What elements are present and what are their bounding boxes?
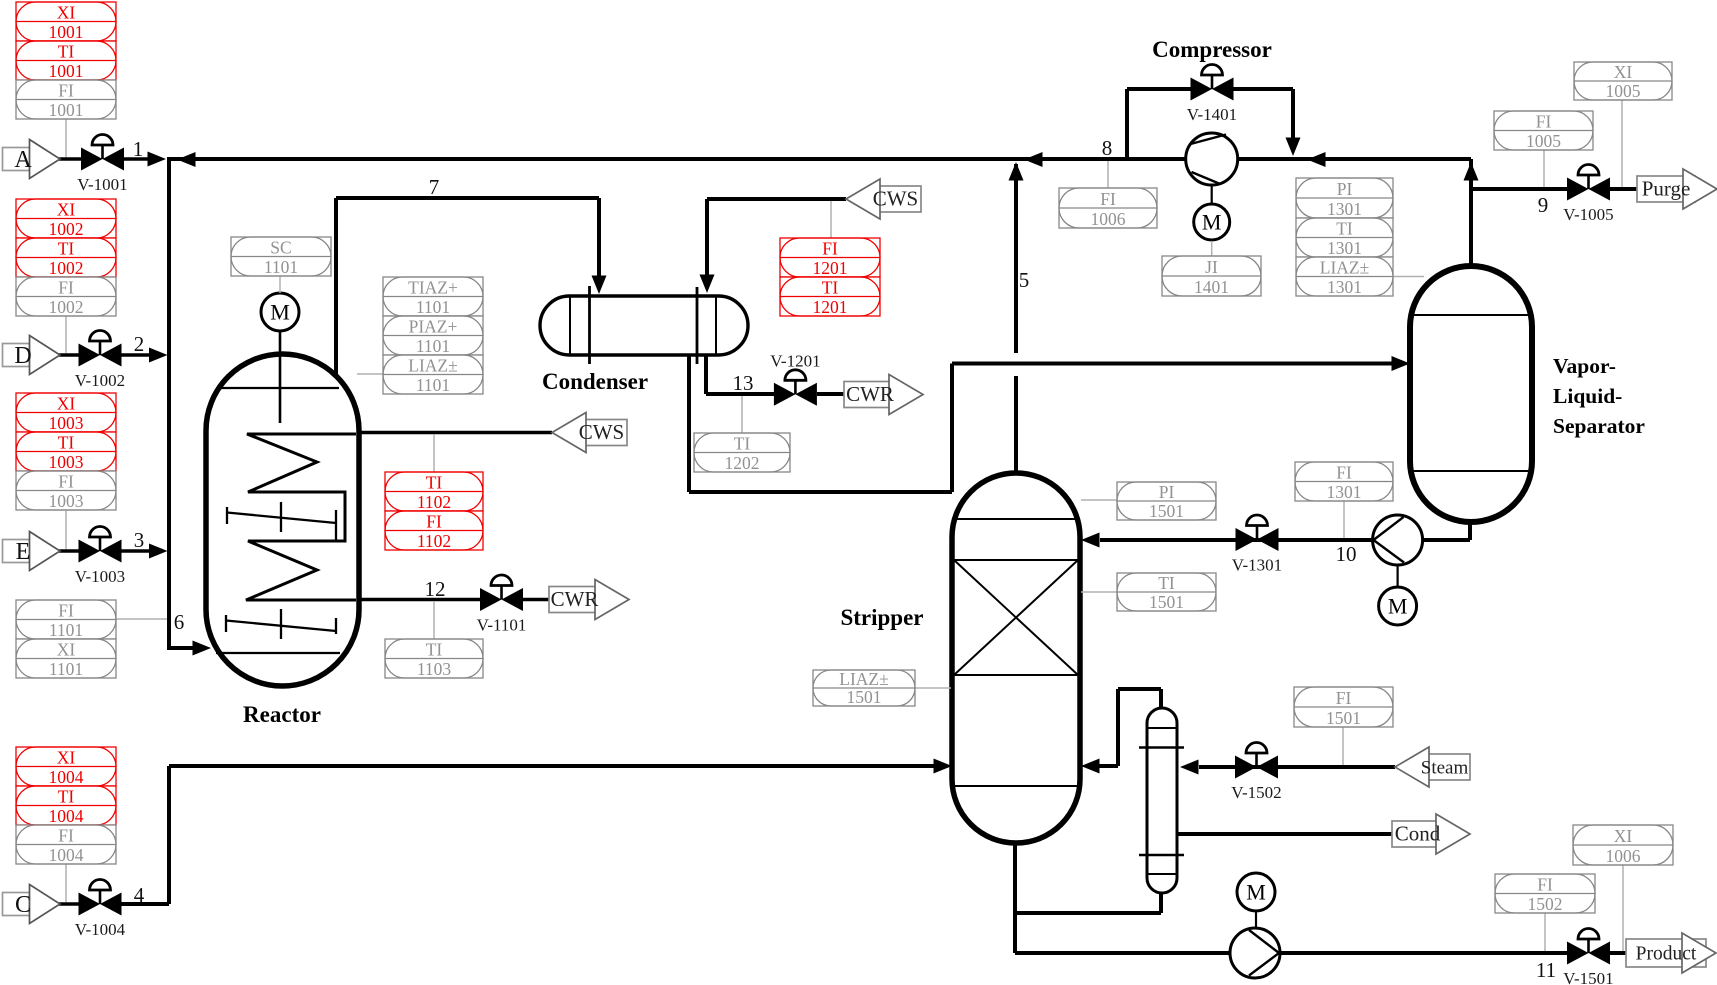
svg-text:1006: 1006 (1606, 846, 1641, 866)
svg-text:TI: TI (426, 473, 443, 493)
condenser tube sheets (590, 286, 698, 364)
svg-text:PI: PI (1159, 482, 1175, 502)
svg-text:1101: 1101 (264, 257, 298, 277)
arrowhead stream 10 into stripper (1081, 533, 1100, 548)
valve V-1005 (1563, 165, 1613, 225)
svg-text:C: C (15, 892, 31, 918)
svg-text:Product: Product (1636, 944, 1697, 965)
wire stream 7 reactor to condenser (336, 198, 599, 376)
svg-text:FI: FI (58, 826, 74, 846)
svg-text:1006: 1006 (1091, 209, 1126, 229)
svg-text:LIAZ±: LIAZ± (408, 356, 457, 376)
svg-text:1002: 1002 (49, 297, 84, 317)
svg-text:CWR: CWR (551, 587, 599, 611)
svg-text:PIAZ+: PIAZ+ (409, 317, 458, 337)
instrument FI 1004 (16, 825, 116, 865)
svg-text:FI: FI (58, 278, 74, 298)
svg-text:TI: TI (822, 278, 839, 298)
reactor agitator paddle 1 (227, 502, 336, 541)
svg-text:1301: 1301 (1327, 277, 1362, 297)
svg-text:TI: TI (58, 433, 75, 453)
arrowhead stream 3 (149, 544, 168, 559)
svg-text:TI: TI (426, 640, 443, 660)
svg-text:V-1502: V-1502 (1231, 783, 1281, 802)
svg-text:TI: TI (58, 42, 75, 62)
reboiler vessel (1147, 708, 1177, 893)
reactor cooling coil (246, 434, 356, 600)
svg-text:1501: 1501 (1149, 501, 1184, 521)
svg-text:CWR: CWR (846, 382, 894, 406)
valve V-1004 (75, 880, 126, 939)
svg-text:M: M (270, 300, 290, 325)
svg-text:Steam: Steam (1421, 758, 1469, 779)
instrument FI 1501 (1294, 687, 1393, 728)
svg-text:Reactor: Reactor (243, 702, 321, 727)
svg-text:Compressor: Compressor (1152, 37, 1272, 62)
valve V-1002 (75, 331, 125, 390)
wire feed E stubs (59, 549, 152, 552)
wire reactor CWR stream 12 (356, 598, 552, 601)
svg-text:FI: FI (1100, 189, 1116, 209)
svg-text:V-1501: V-1501 (1563, 969, 1613, 985)
svg-text:TI: TI (734, 434, 751, 454)
svg-text:XI: XI (1614, 62, 1633, 82)
svg-text:1001: 1001 (49, 61, 84, 81)
svg-text:CWS: CWS (873, 187, 919, 211)
svg-text:9: 9 (1538, 193, 1549, 217)
utility arrow Product (1626, 933, 1716, 973)
utility arrow Steam (1395, 747, 1470, 787)
instrument FI 1102 (385, 511, 483, 551)
svg-text:XI: XI (57, 200, 76, 220)
svg-text:1501: 1501 (1149, 592, 1184, 612)
svg-text:1301: 1301 (1327, 482, 1362, 502)
svg-text:1501: 1501 (1326, 708, 1361, 728)
svg-text:1003: 1003 (49, 491, 84, 511)
valve V-1101 (477, 575, 527, 635)
instrument FI 1006 (1059, 188, 1157, 229)
arrowhead stream 7 into condenser (592, 276, 607, 295)
svg-text:V-1301: V-1301 (1232, 556, 1282, 575)
instrument TI 1102 (385, 472, 483, 512)
svg-text:Condenser: Condenser (542, 369, 648, 394)
svg-text:1101: 1101 (416, 336, 450, 356)
svg-text:V-1002: V-1002 (75, 371, 125, 390)
arrowhead CWS into condenser (700, 275, 715, 294)
svg-text:LIAZ±: LIAZ± (839, 669, 888, 689)
arrowhead riser up (1464, 162, 1479, 181)
svg-text:1102: 1102 (417, 492, 451, 512)
svg-text:FI: FI (1336, 688, 1352, 708)
arrowhead recycle mid (1024, 152, 1043, 167)
instrument XI 1004 (16, 747, 116, 787)
wire condenser outlet to separator (689, 353, 1392, 492)
svg-text:V-1005: V-1005 (1563, 205, 1613, 224)
wire compressor to motor (1211, 185, 1213, 203)
svg-text:V-1003: V-1003 (75, 567, 125, 586)
instrument XI 1101 (16, 639, 116, 679)
utility arrow Cond (1392, 814, 1470, 854)
instrument XI 1005 (1574, 62, 1672, 101)
svg-text:XI: XI (57, 748, 76, 768)
svg-text:PI: PI (1337, 179, 1353, 199)
instrument LIAZ 1501 (813, 669, 915, 707)
svg-text:M: M (1246, 880, 1266, 905)
stripper vessel (952, 473, 1080, 843)
svg-text:1301: 1301 (1327, 238, 1362, 258)
svg-text:8: 8 (1102, 136, 1113, 160)
wire separator overhead riser (1469, 159, 1473, 268)
svg-text:1004: 1004 (49, 767, 84, 787)
valve V-1003 (75, 527, 125, 587)
svg-text:1101: 1101 (416, 375, 450, 395)
svg-text:1004: 1004 (49, 845, 84, 865)
instrument FI 1201 (780, 238, 880, 278)
instrument TI 1001 (16, 41, 116, 81)
reactor internals: tangent line (221, 387, 339, 389)
feed stream E block arrow (3, 532, 61, 571)
svg-text:1502: 1502 (1528, 894, 1563, 914)
arrowhead stream 2 (149, 348, 168, 363)
svg-text:M: M (1202, 210, 1222, 235)
arrowhead bypass down (1286, 138, 1301, 157)
svg-text:1101: 1101 (416, 297, 450, 317)
instrument TI 1301 (1296, 218, 1393, 258)
wire stripper bottoms stream 11 product (1015, 843, 1640, 953)
wire reactor inlet stub stream 6 (169, 646, 198, 650)
utility arrow Purge (1637, 169, 1717, 209)
svg-text:TIAZ+: TIAZ+ (408, 278, 458, 298)
svg-text:TI: TI (1336, 219, 1353, 239)
svg-text:1004: 1004 (49, 806, 84, 826)
svg-text:1501: 1501 (847, 687, 882, 707)
arrowhead recycle right (1307, 152, 1326, 167)
utility arrow CWR (844, 375, 923, 415)
svg-text:E: E (16, 539, 31, 565)
utility arrow CWR (549, 580, 629, 620)
svg-text:FI: FI (58, 601, 74, 621)
wire steam line (1199, 765, 1395, 769)
svg-text:1401: 1401 (1194, 277, 1229, 297)
arrowhead stream 4 into stripper (934, 759, 953, 774)
instrument XI 1002 (16, 199, 116, 239)
svg-text:V-1001: V-1001 (77, 175, 127, 194)
svg-text:XI: XI (57, 3, 76, 23)
svg-text:13: 13 (733, 371, 754, 395)
svg-text:1002: 1002 (49, 219, 84, 239)
feed stream A block arrow (3, 140, 61, 179)
svg-text:V-1004: V-1004 (75, 920, 126, 939)
instrument FI 1301 (1295, 462, 1393, 502)
svg-text:1001: 1001 (49, 22, 84, 42)
arrowhead stream 1 into header (148, 152, 167, 167)
feed stream C block arrow (3, 885, 61, 924)
svg-text:FI: FI (822, 239, 838, 259)
instrument TI 1201 (780, 277, 880, 317)
reactor agitator shaft (279, 331, 282, 423)
svg-text:XI: XI (1614, 826, 1633, 846)
instrument FI 1001 (16, 80, 116, 120)
wire main recycle line stream 8 (169, 157, 1471, 161)
instrument TI 1004 (16, 786, 116, 826)
instrument LIAZ 1301 (1296, 257, 1393, 297)
valve V-1401 (1187, 65, 1237, 125)
valve V-1502 (1231, 743, 1281, 803)
svg-text:1103: 1103 (417, 659, 452, 679)
svg-text:1003: 1003 (49, 413, 84, 433)
svg-text:1102: 1102 (417, 531, 451, 551)
arrowhead recycle into junction (177, 152, 196, 167)
instrument FI 1005 (1494, 111, 1593, 151)
separator pump (1373, 515, 1423, 565)
instrument FI 1502 (1495, 874, 1595, 914)
instrument XI 1003 (16, 393, 116, 433)
stripper pump motor M (1237, 873, 1275, 911)
condenser head tangents (570, 297, 716, 354)
instrument TIAZ+ 1101 (383, 277, 483, 317)
svg-text:1002: 1002 (49, 258, 84, 278)
svg-text:A: A (14, 147, 32, 173)
wire feed D stubs (59, 353, 152, 356)
instrument FI 1002 (16, 277, 116, 317)
instrument PI 1301 (1296, 178, 1393, 219)
instrument FI 1101 (16, 600, 116, 640)
compressor (1186, 133, 1238, 185)
svg-text:1005: 1005 (1606, 81, 1641, 101)
svg-text:4: 4 (134, 883, 145, 907)
stripper tangent lines (955, 519, 1077, 786)
svg-text:LIAZ±: LIAZ± (1320, 258, 1369, 278)
instrument JI 1401 (1162, 256, 1261, 297)
arrowhead into separator (1392, 356, 1411, 371)
wire reboiler vapor return (1098, 689, 1161, 766)
valve V-1001 (77, 135, 127, 195)
svg-text:Separator: Separator (1553, 414, 1645, 438)
valve V-1201 (770, 351, 820, 406)
instrument TI 1103 (385, 639, 483, 679)
svg-text:FI: FI (58, 472, 74, 492)
svg-text:JI: JI (1205, 257, 1218, 277)
svg-text:FI: FI (1336, 463, 1352, 483)
vapor-liquid separator vessel (1410, 266, 1532, 522)
svg-text:XI: XI (57, 640, 76, 660)
condenser vessel (540, 296, 748, 355)
reactor agitator motor M (261, 293, 299, 331)
svg-text:12: 12 (425, 577, 446, 601)
wire feed header vertical (167, 157, 171, 650)
svg-text:FI: FI (1536, 112, 1552, 132)
instrument FI 1003 (16, 471, 116, 511)
svg-text:FI: FI (58, 81, 74, 101)
utility arrow CWS (846, 179, 921, 219)
svg-text:2: 2 (134, 332, 145, 356)
svg-text:1301: 1301 (1327, 199, 1362, 219)
svg-text:1101: 1101 (49, 620, 83, 640)
instrument XI 1001 (16, 2, 116, 42)
instrument PI 1501 (1117, 482, 1216, 521)
svg-text:V-1401: V-1401 (1187, 105, 1237, 124)
wire feed A stubs (59, 157, 150, 160)
wire compressor bypass V-1401 (1127, 89, 1293, 159)
svg-text:FI: FI (1537, 875, 1553, 895)
wire reboiler condensate to Cond (1176, 832, 1392, 836)
reactor vessel (206, 354, 359, 686)
instrument LIAZ 1101 (383, 355, 483, 395)
svg-text:TI: TI (58, 239, 75, 259)
arrowhead reboiler vapor into stripper (1081, 759, 1100, 774)
stripper pump (1230, 928, 1280, 978)
svg-text:Stripper: Stripper (840, 605, 923, 630)
svg-text:Cond: Cond (1395, 822, 1441, 846)
instrument TI 1003 (16, 432, 116, 472)
svg-text:1: 1 (133, 137, 144, 161)
svg-text:1201: 1201 (813, 297, 848, 317)
instrument TI 1501 (1117, 573, 1216, 612)
svg-text:CWS: CWS (579, 420, 625, 444)
svg-text:V-1201: V-1201 (770, 351, 820, 370)
svg-text:1003: 1003 (49, 452, 84, 472)
svg-text:Vapor-: Vapor- (1553, 354, 1616, 378)
wire reactor CWS line (356, 431, 552, 434)
svg-text:SC: SC (270, 238, 291, 258)
arrowhead stream 5 up (1009, 162, 1024, 181)
svg-text:10: 10 (1336, 542, 1357, 566)
arrowhead steam into reboiler (1180, 760, 1199, 775)
reboiler internals (1148, 728, 1176, 874)
svg-text:11: 11 (1536, 958, 1556, 982)
svg-text:3: 3 (134, 528, 145, 552)
feed stream D block arrow (3, 336, 61, 375)
instrument TI 1002 (16, 238, 116, 278)
wire feed C stub (59, 902, 80, 905)
utility arrow CWS (552, 413, 627, 453)
svg-text:1202: 1202 (725, 453, 760, 473)
svg-text:D: D (14, 343, 31, 369)
svg-text:6: 6 (174, 610, 185, 634)
svg-text:1005: 1005 (1526, 131, 1561, 151)
wire reboiler bottom link (1015, 893, 1161, 913)
separator pump motor M (1379, 587, 1417, 625)
wire separator bottoms stream 10 (1100, 522, 1470, 540)
reactor bottom tangent (216, 652, 340, 654)
wire condenser CWS inlet (707, 199, 846, 288)
svg-text:TI: TI (1158, 573, 1175, 593)
svg-text:M: M (1388, 594, 1408, 619)
svg-text:FI: FI (426, 512, 442, 532)
reactor agitator paddle 2 (226, 609, 336, 639)
svg-text:V-1101: V-1101 (477, 616, 527, 635)
arrowhead stream 6 into reactor (193, 641, 212, 656)
wire stream 5 stripper overhead (1014, 164, 1018, 474)
svg-text:1201: 1201 (813, 258, 848, 278)
wire stream 4 C feed to stripper (121, 766, 935, 904)
wire purge line stream 9 (1471, 187, 1640, 191)
instrument connector lines (65, 119, 67, 157)
instrument SC 1101 (231, 237, 331, 277)
instrument TI 1202 (694, 433, 790, 473)
svg-text:1101: 1101 (49, 659, 83, 679)
svg-text:Liquid-: Liquid- (1553, 384, 1622, 408)
svg-text:Purge: Purge (1642, 177, 1691, 201)
svg-text:1001: 1001 (49, 100, 84, 120)
svg-text:7: 7 (429, 175, 440, 199)
svg-text:5: 5 (1019, 268, 1030, 292)
stripper packed bed (954, 560, 1078, 675)
wire condenser CWR stream 13 (706, 353, 848, 394)
valve V-1301 (1232, 515, 1282, 575)
instrument XI 1006 (1573, 825, 1673, 866)
separator tangent lines (1413, 315, 1529, 471)
valve V-1501 (1563, 929, 1613, 985)
svg-text:XI: XI (57, 394, 76, 414)
svg-text:TI: TI (58, 787, 75, 807)
instrument PIAZ+ 1101 (383, 316, 483, 356)
compressor motor M (1194, 204, 1230, 240)
